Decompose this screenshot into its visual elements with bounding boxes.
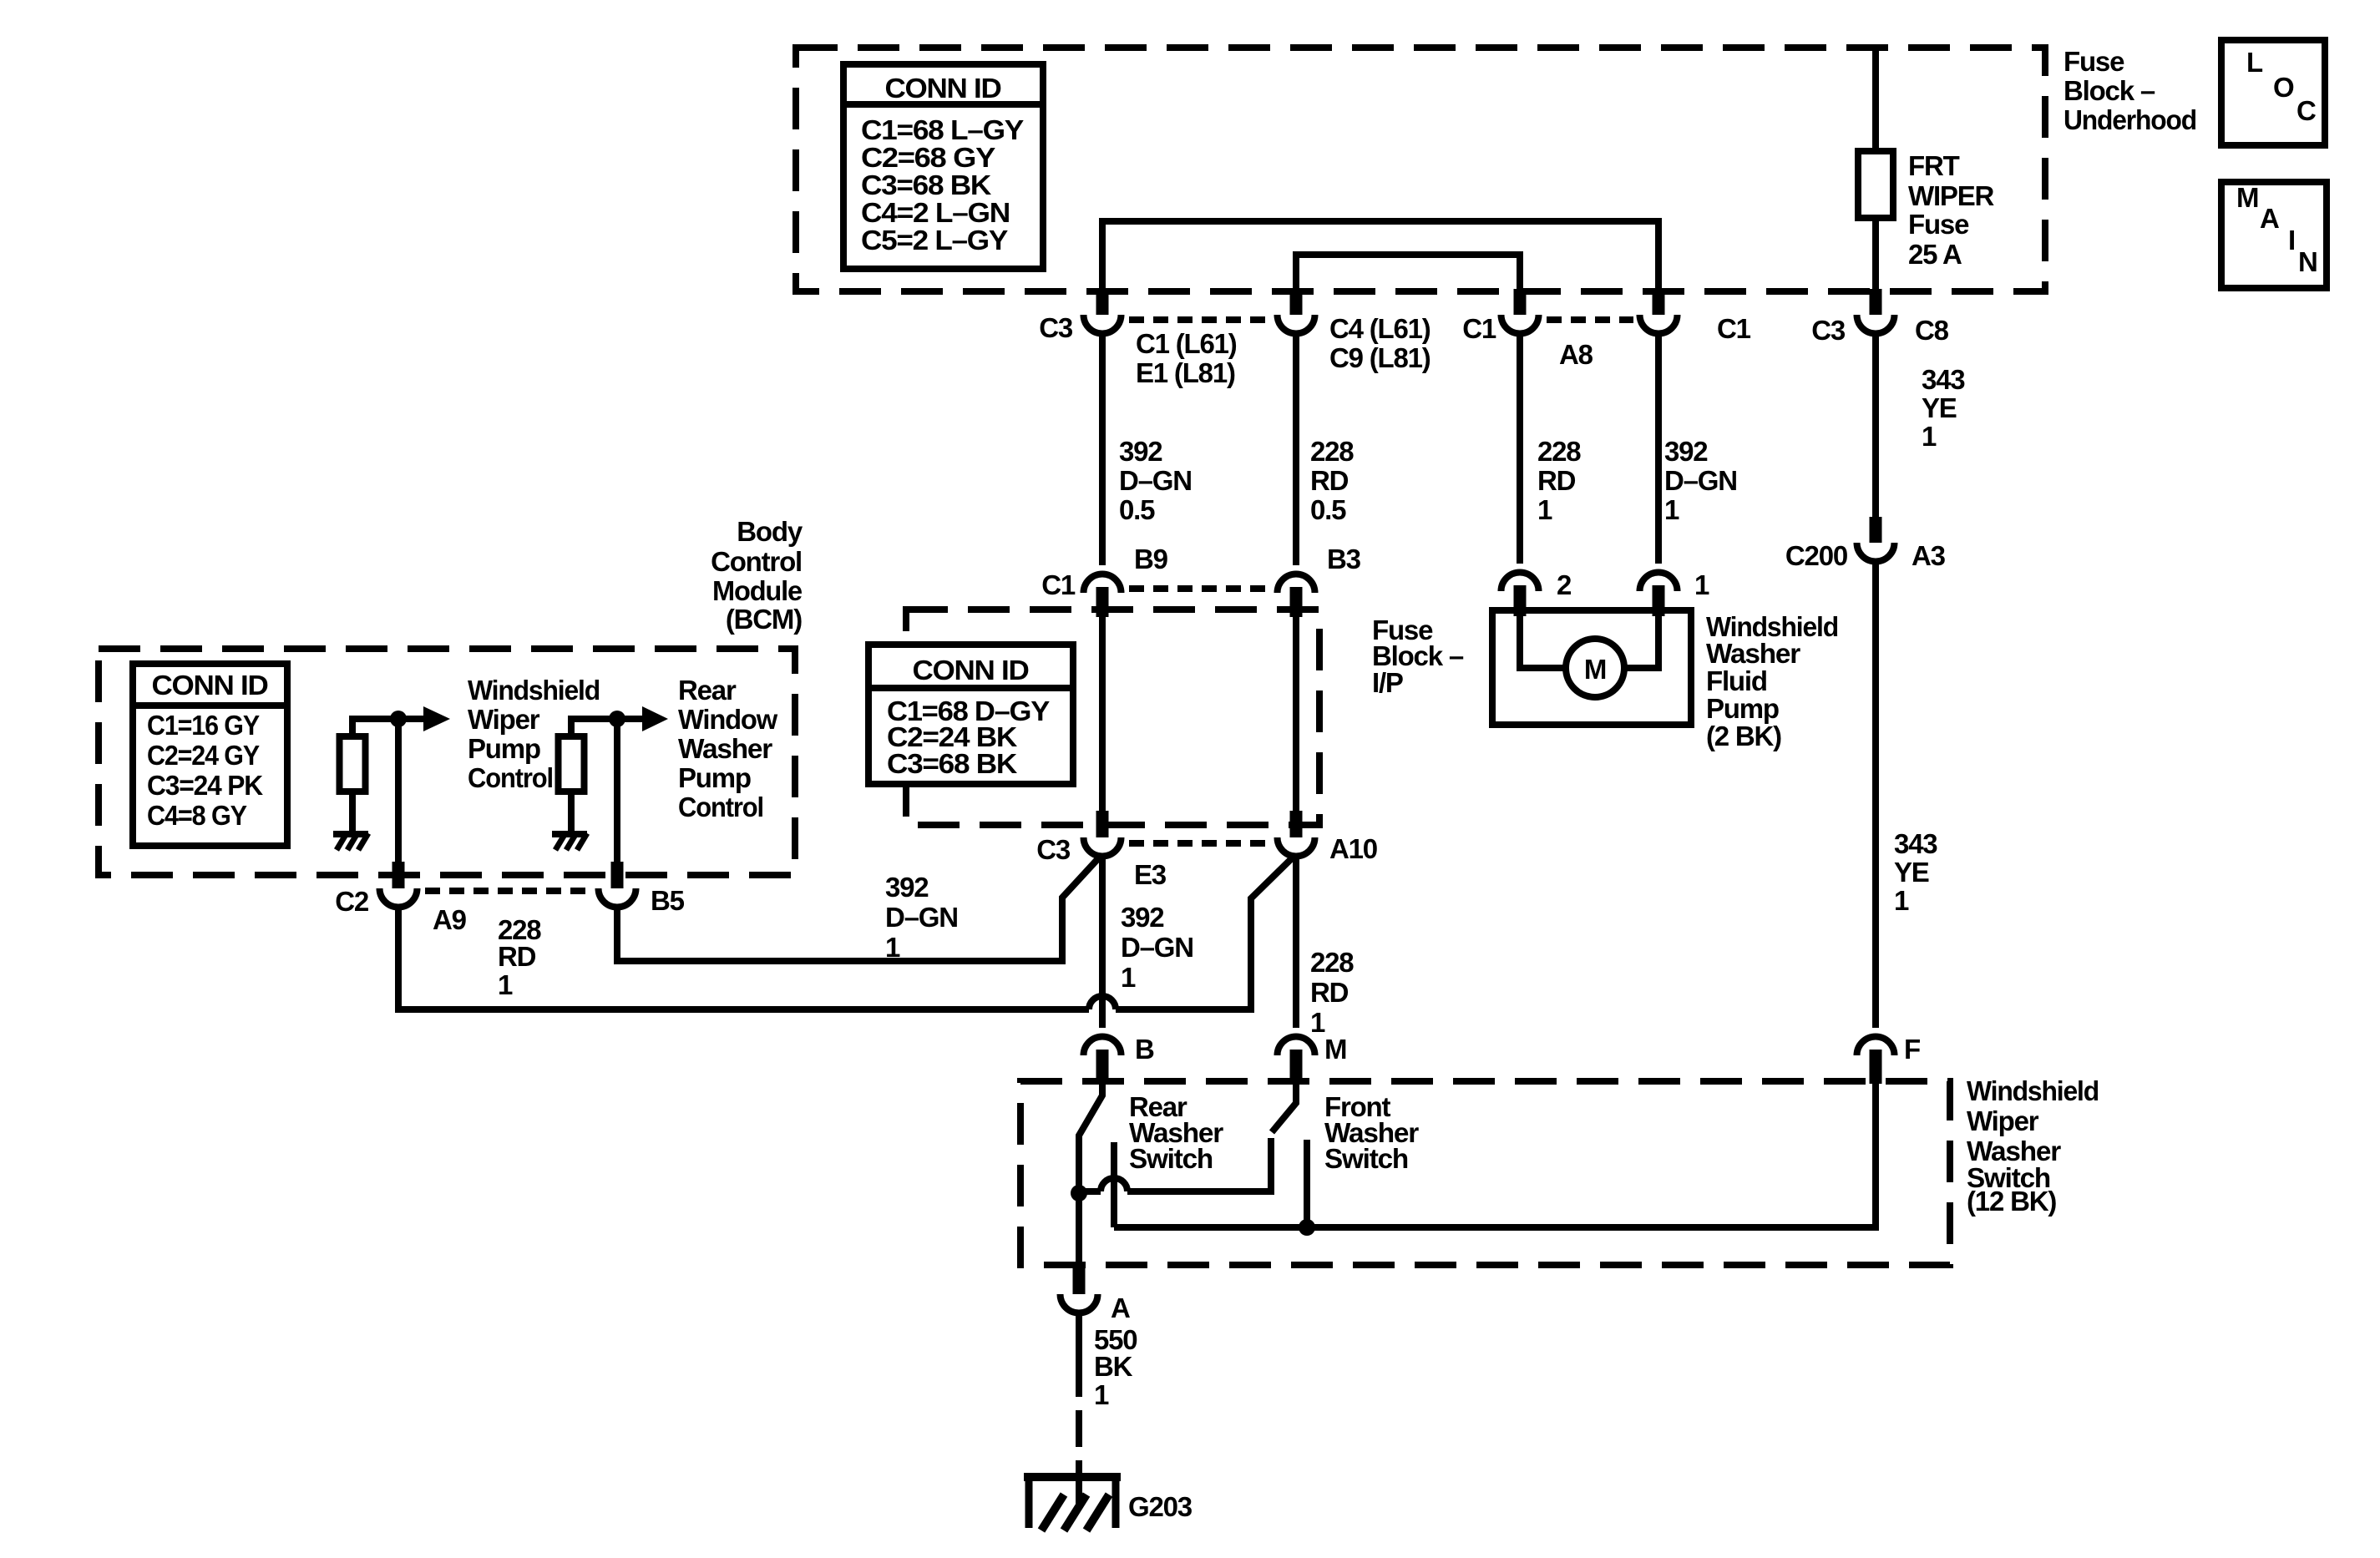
svg-text:D–GN: D–GN [1121,932,1193,963]
svg-text:Fuse: Fuse [1908,209,1969,240]
svg-text:392: 392 [1121,902,1164,933]
fuse block I/P dashed outline [906,610,1319,825]
svg-text:1: 1 [1894,885,1909,916]
wire 550 BK 1 (A to ground) [1076,1315,1082,1397]
wire jumper C3 to C1 inside underhood box [1102,221,1658,294]
svg-text:Window: Window [678,704,778,735]
svg-text:Fuse: Fuse [2064,46,2124,77]
svg-text:C8: C8 [1915,315,1949,346]
fuse FRT WIPER 25A symbol [1858,151,1893,218]
windshield wiper washer switch dashed outline [1020,1081,1950,1265]
connector C1/B9 (fuse block I/P) pin [1084,574,1122,593]
connector pairing dots A9-B5 [425,888,594,894]
svg-text:A: A [2260,203,2279,234]
svg-text:0.5: 0.5 [1310,494,1346,525]
svg-text:C2=68 GY: C2=68 GY [861,142,995,173]
svg-text:Switch: Switch [1324,1143,1408,1174]
ground symbol (washer pump control) [552,831,587,837]
svg-text:CONN ID: CONN ID [152,670,268,701]
connector B3 (fuse block I/P) pin [1278,574,1315,593]
svg-text:228: 228 [1537,436,1581,467]
svg-text:Underhood: Underhood [2064,104,2196,135]
rear window washer pump control driver wire [571,719,642,736]
svg-text:FRT: FRT [1908,150,1960,181]
svg-text:C3=24 PK: C3=24 PK [147,770,263,801]
svg-text:392: 392 [885,872,929,903]
svg-text:C3=68 BK: C3=68 BK [861,169,991,200]
connector pin 2 (washer pump) [1501,573,1539,592]
svg-text:Wiper: Wiper [1967,1105,2039,1136]
svg-text:F: F [1904,1034,1920,1065]
svg-text:C4=2 L–GN: C4=2 L–GN [861,197,1010,228]
wire 392 D-GN 1 (E3 to rear washer switch B) [1099,858,1106,1028]
fuse block underhood dashed outline [796,48,2045,291]
svg-text:1: 1 [1537,494,1552,525]
svg-text:C200: C200 [1785,540,1847,571]
svg-text:O: O [2273,72,2294,103]
ground G203 symbol [1024,1473,1121,1481]
connector C1/A8 (underhood) pin [1514,289,1527,315]
svg-text:1: 1 [885,932,900,963]
switch common feed wire from F [1114,1084,1876,1227]
connector B5 (BCM) pin [611,862,624,888]
svg-text:M: M [1324,1034,1346,1065]
connector pairing dots E3-A10 [1129,840,1271,847]
windshield wiper pump control driver wire [352,719,423,736]
windshield wiper pump control arrowhead [423,706,450,731]
connector A (switch) pin [1073,1262,1086,1294]
dashed wire to G203 [1076,1410,1082,1476]
svg-text:Control: Control [711,546,802,577]
svg-text:BK: BK [1094,1351,1133,1382]
svg-text:25 A: 25 A [1908,239,1962,270]
svg-text:228: 228 [1310,436,1354,467]
svg-text:Pump: Pump [1706,693,1779,724]
svg-text:D–GN: D–GN [1664,465,1737,496]
svg-text:C4=8 GY: C4=8 GY [147,800,247,831]
wire 343 YE 1 (C8 to C200) [1872,336,1879,517]
wire from top edge to fuse [1872,51,1879,151]
wire resistor to ground (wiper) [349,792,356,832]
svg-text:C4 (L61): C4 (L61) [1329,313,1431,344]
rear window washer pump control arrowhead [642,706,668,731]
wire resistor to ground (washer) [568,792,575,832]
svg-text:1: 1 [1310,1007,1325,1038]
svg-text:1: 1 [1664,494,1679,525]
svg-text:B5: B5 [651,885,685,916]
svg-text:(BCM): (BCM) [726,604,802,635]
rear switch fixed contact riser [1111,1142,1117,1227]
svg-text:C1=68 L–GY: C1=68 L–GY [861,114,1024,145]
svg-text:C: C [2296,95,2316,126]
LOC reference box [2221,40,2325,145]
svg-text:Block –: Block – [2064,75,2155,106]
svg-text:Wiper: Wiper [468,704,540,735]
svg-text:C1 (L61): C1 (L61) [1136,328,1237,359]
svg-text:392: 392 [1664,436,1708,467]
svg-text:A10: A10 [1329,833,1377,864]
svg-text:Washer: Washer [1706,638,1800,669]
connector pairing dots C3-C4 [1129,316,1271,323]
svg-text:Module: Module [712,575,803,606]
wire through I/P block right [1293,617,1299,811]
pump motor lead left [1520,616,1566,668]
motor M circle [1566,639,1624,697]
svg-text:Body: Body [737,516,803,547]
svg-text:C3: C3 [1039,312,1073,343]
wire junction dot to connector A [1076,1193,1082,1262]
wire dot to B5 connector [614,719,620,862]
wire dot to C2 connector [395,719,402,862]
svg-text:M: M [1584,654,1606,685]
svg-text:A8: A8 [1559,339,1593,370]
svg-text:Windshield: Windshield [468,675,600,706]
wire 228 RD 1 (C1 to pump pin 2) [1517,336,1523,564]
svg-text:D–GN: D–GN [1119,465,1192,496]
svg-text:1: 1 [1922,421,1937,452]
svg-text:N: N [2298,246,2317,277]
wire 392 D-GN 1 (B5 to E3) [617,855,1101,961]
svg-text:Fluid: Fluid [1706,665,1767,696]
svg-text:(12 BK): (12 BK) [1967,1186,2056,1217]
junction dot washer pump control [609,711,625,727]
connector C3/E3 (I/P output) pin [1096,811,1109,837]
svg-text:WIPER: WIPER [1908,180,1995,211]
wire dot to front contact, left of hop [1079,1188,1101,1195]
wire 343 YE 1 (C200 to F) [1872,564,1879,1028]
front washer switch blade [1272,1084,1296,1132]
wire hop over rear contact riser [1101,1178,1127,1191]
wire 392 D-GN 1 (C1 to pump pin 1) [1655,336,1662,564]
body control module dashed outline [99,649,795,875]
svg-text:Switch: Switch [1129,1143,1213,1174]
wire 228 RD 0.5 (C4 to B3) [1293,336,1299,565]
windshield washer fluid pump box [1492,610,1691,725]
svg-text:Washer: Washer [678,733,772,764]
svg-text:C1: C1 [1462,313,1496,344]
svg-text:1: 1 [1694,569,1709,600]
svg-text:RD: RD [498,941,536,972]
resistor (wiper pump control) [340,736,366,792]
svg-text:E3: E3 [1134,859,1167,890]
svg-text:Control: Control [468,762,553,793]
svg-text:L: L [2246,47,2263,78]
svg-text:C3: C3 [1036,834,1071,865]
svg-text:D–GN: D–GN [885,902,958,933]
svg-text:343: 343 [1894,828,1937,859]
CONN ID table (underhood) [843,64,1043,269]
resistor (washer pump control) [559,736,585,792]
CONN ID table (BCM) [133,664,287,846]
svg-text:C9 (L81): C9 (L81) [1329,342,1431,373]
connector C3 (underhood) pin [1096,289,1109,315]
connector B (switch) pin [1084,1037,1122,1056]
svg-text:I/P: I/P [1372,667,1403,698]
connector C3/C8 (underhood fuse output) pin [1870,289,1882,315]
svg-text:C1=16 GY: C1=16 GY [147,710,260,741]
connector F (switch) pin [1857,1037,1895,1056]
connector C200/A3 pin [1870,517,1882,543]
svg-text:B: B [1135,1034,1154,1065]
svg-text:1: 1 [498,969,513,1000]
wire jumper C4 to C1 inside underhood box [1296,255,1520,294]
connector M (switch) pin [1278,1037,1315,1056]
connector pairing dots B9-B3 [1129,585,1271,592]
wire 228 RD 1 (A10 to front washer switch M) [1293,858,1299,1028]
svg-text:C3: C3 [1811,315,1846,346]
svg-text:YE: YE [1894,857,1929,888]
svg-text:1: 1 [1094,1379,1109,1410]
svg-text:RD: RD [1310,465,1349,496]
svg-text:392: 392 [1119,436,1162,467]
svg-text:Windshield: Windshield [1967,1075,2099,1106]
svg-text:Pump: Pump [678,762,751,793]
connector C4 (underhood) pin [1290,289,1303,315]
svg-text:Pump: Pump [468,733,540,764]
svg-text:B3: B3 [1327,544,1361,574]
svg-text:A3: A3 [1912,540,1946,571]
rear washer switch blade [1079,1084,1102,1186]
wire dot to front contact, right of hop [1127,1138,1271,1191]
ground symbol (wiper pump control) [333,831,368,837]
svg-text:343: 343 [1922,364,1965,395]
svg-text:Control: Control [678,792,763,822]
svg-text:C2=24 GY: C2=24 GY [147,740,260,771]
svg-text:CONN ID: CONN ID [913,655,1029,685]
connector A10 (I/P output) pin [1290,811,1303,837]
junction dot front switch feed [1299,1219,1315,1236]
connector pin 1 (washer pump) [1640,573,1678,592]
CONN ID table (I/P) [868,645,1073,784]
wire hop over E3-B wire [1089,996,1116,1009]
svg-text:CONN ID: CONN ID [885,73,1001,104]
MAIN reference box [2221,182,2327,288]
svg-text:2: 2 [1557,569,1572,600]
svg-text:RD: RD [1537,465,1576,496]
svg-text:M: M [2236,182,2258,213]
svg-text:C1: C1 [1717,313,1751,344]
svg-text:C2: C2 [335,886,369,917]
svg-text:E1 (L81): E1 (L81) [1136,357,1235,388]
svg-text:A: A [1111,1292,1130,1323]
connector C1 right (underhood) pin [1653,289,1665,315]
svg-text:G203: G203 [1128,1491,1193,1522]
wire through I/P block left [1099,617,1106,811]
connector C2/A9 (BCM) pin [392,862,405,888]
svg-text:(2 BK): (2 BK) [1706,721,1781,751]
svg-text:C1: C1 [1041,569,1076,600]
svg-text:0.5: 0.5 [1119,494,1155,525]
pump motor lead right [1624,616,1658,668]
junction dot wiper pump control [390,711,407,727]
svg-text:1: 1 [1121,962,1136,993]
svg-text:C5=2 L–GY: C5=2 L–GY [861,225,1008,255]
svg-text:B9: B9 [1134,544,1168,574]
svg-text:C3=68 BK: C3=68 BK [887,748,1017,779]
svg-text:A9: A9 [433,904,467,935]
wire 392 D-GN 0.5 (C3 to B9) [1099,336,1106,565]
svg-text:RD: RD [1310,977,1349,1008]
svg-text:228: 228 [1310,947,1354,978]
front switch feed contact riser [1304,1140,1310,1227]
connector pairing dots C1-C1 [1547,316,1633,323]
svg-text:YE: YE [1922,392,1957,423]
wire 228 RD 1 (A9 to A10) right of hop [1116,855,1295,1009]
junction dot rear switch [1071,1185,1087,1201]
wire from fuse to C8 connector [1872,218,1879,291]
wire 228 RD 1 (A9 to A10) left of hop [398,908,1089,1009]
svg-text:I: I [2288,225,2295,255]
svg-text:Rear: Rear [678,675,737,706]
